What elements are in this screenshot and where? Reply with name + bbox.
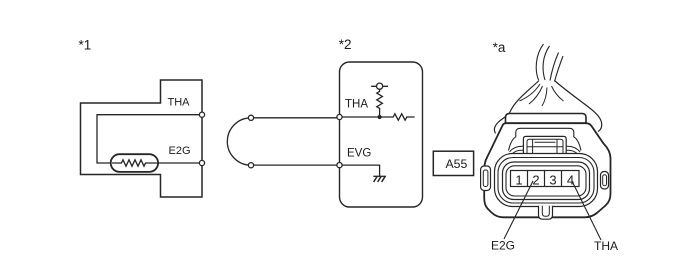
- svg-text:A55: A55: [445, 157, 467, 171]
- leader line to E2G: [504, 181, 533, 239]
- ECM edge circle THA: [337, 114, 342, 119]
- latch box inner: [527, 139, 563, 153]
- svg-text:THA: THA: [594, 239, 618, 253]
- wire EVG inside ECM: [340, 165, 380, 176]
- bottom tab outer: [539, 206, 553, 219]
- bottom tab inner: [542, 206, 549, 217]
- svg-text:E2G: E2G: [491, 239, 515, 253]
- junction dot: [378, 115, 382, 119]
- ear right: [601, 172, 609, 190]
- harness connector arc: [227, 118, 251, 165]
- svg-text:3: 3: [549, 173, 556, 188]
- latch box outer: [523, 136, 566, 153]
- harness terminal circle EVG: [248, 163, 253, 168]
- svg-text:THA: THA: [345, 99, 368, 111]
- svg-text:*a: *a: [493, 40, 506, 55]
- wire strand 2b: [555, 56, 564, 82]
- pin row box: [511, 171, 580, 187]
- svg-text:*1: *1: [79, 38, 92, 53]
- boot fold line 2: [529, 86, 543, 104]
- boot bell left outline: [494, 81, 539, 134]
- grommet plate: [506, 114, 587, 124]
- svg-text:THA: THA: [168, 97, 191, 109]
- ECM box: [340, 62, 423, 207]
- latch wing left: [510, 146, 524, 154]
- terminal node E2G: [199, 160, 204, 165]
- wire harness THA: [251, 117, 340, 119]
- boot fold line 4: [552, 86, 564, 101]
- seal ring inner: [498, 158, 594, 204]
- svg-text:E2G: E2G: [169, 145, 191, 157]
- ear left: [481, 166, 491, 191]
- connector outer shell: [484, 123, 610, 217]
- pin dividers: [528, 171, 562, 187]
- A55 connector box: [433, 151, 473, 175]
- svg-text:*2: *2: [339, 37, 352, 52]
- mating face outer: [503, 162, 590, 200]
- svg-text:EVG: EVG: [347, 148, 371, 160]
- latch plateau: [509, 128, 582, 150]
- wire THA node to thermistor: [97, 115, 202, 163]
- leader line to THA: [572, 181, 601, 240]
- svg-text:1: 1: [515, 173, 522, 188]
- harness terminal circle THA: [248, 115, 253, 120]
- boot bell right outline: [555, 81, 602, 132]
- wire thermistor to E2G node: [158, 162, 202, 164]
- power symbol: [371, 83, 388, 89]
- ECM edge circle EVG: [337, 163, 342, 168]
- sensor housing outline: [81, 80, 203, 197]
- svg-text:2: 2: [532, 173, 539, 188]
- boot fold line 3: [542, 88, 547, 107]
- latch posts and slot: [527, 139, 563, 153]
- pull-up resistor R1: [377, 89, 383, 117]
- wire THA inside ECM with resistor R2: [340, 114, 415, 120]
- boot fold line 1: [520, 84, 541, 101]
- wire harness EVG: [251, 164, 340, 166]
- wire strand 2a: [550, 53, 559, 81]
- mating face inner: [506, 166, 586, 196]
- terminal node THA: [199, 112, 204, 117]
- chassis ground: [373, 176, 386, 182]
- thermistor RT: [111, 154, 158, 172]
- seal ring outer: [495, 154, 598, 207]
- wire strand 1b: [543, 46, 549, 80]
- latch wing right: [566, 146, 580, 154]
- svg-text:4: 4: [567, 173, 574, 188]
- wire strand 1a: [536, 44, 543, 80]
